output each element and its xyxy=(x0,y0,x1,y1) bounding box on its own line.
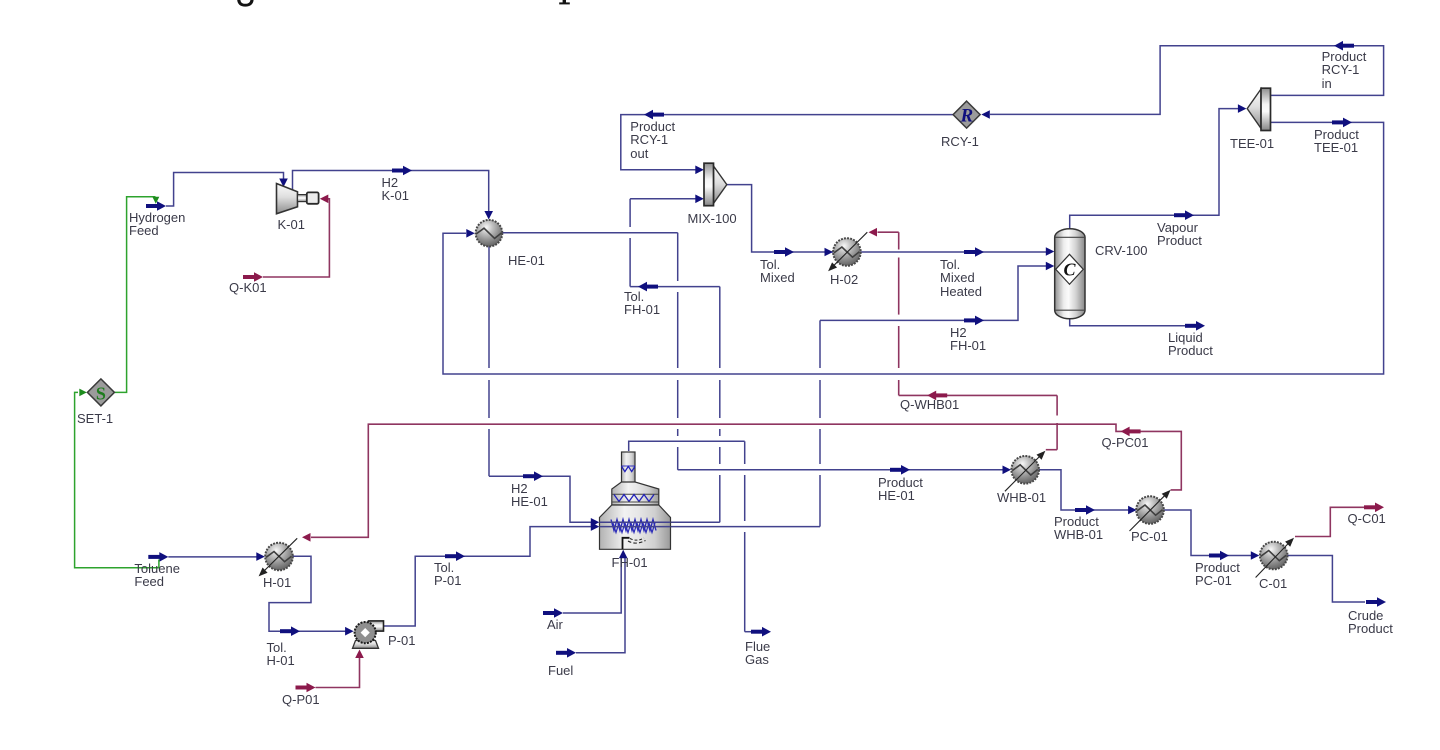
label K-01 xyxy=(278,218,305,231)
wire stream Q-P01 (energy) xyxy=(296,686,308,690)
wire stream H2 K-01 xyxy=(293,171,489,212)
label Fuel xyxy=(548,664,573,677)
wire stream Air xyxy=(543,611,555,615)
fired heater FH-01 xyxy=(622,452,636,483)
mixer MIX-100 xyxy=(714,166,727,203)
label MIX-100 xyxy=(688,212,737,225)
wire stream H2 HE-01 xyxy=(488,246,490,368)
label Q-PC01 xyxy=(1102,436,1149,449)
cooler PC-01 xyxy=(1136,496,1164,524)
wire stream Tol. H-01 xyxy=(269,556,346,631)
label H2 HE-01 xyxy=(511,482,548,509)
wire stream Crude Product xyxy=(1287,556,1365,603)
label H-01 xyxy=(263,576,291,589)
recycle RCY-1 xyxy=(953,101,980,128)
label Product RCY-1 out xyxy=(630,120,675,160)
svg-text:C: C xyxy=(1063,260,1076,280)
label H2 K-01 xyxy=(382,176,409,203)
reactor CRV-100 xyxy=(1055,229,1085,319)
wire stream Flue Gas xyxy=(629,441,745,451)
set SET-1 xyxy=(87,379,114,406)
wire stream H2 FH-01 xyxy=(671,526,821,528)
label SET-1 xyxy=(77,412,113,425)
svg-text:S: S xyxy=(96,383,106,403)
label Product RCY-1 in xyxy=(1322,50,1367,90)
label Q-C01 xyxy=(1348,512,1386,525)
label Tol. Mixed Heated xyxy=(940,258,982,298)
wire SET-1 output (to Hydrogen Feed) xyxy=(114,197,155,393)
label Tol. Mixed xyxy=(760,258,795,285)
compressor K-01 xyxy=(277,184,298,214)
label Tol. H-01 xyxy=(267,641,295,668)
wire stream Product TEE-01 xyxy=(443,122,1384,374)
label Vapour Product xyxy=(1157,221,1202,248)
wire stream Fuel xyxy=(556,651,568,655)
label Product PC-01 xyxy=(1195,561,1240,588)
label HE-01 xyxy=(508,254,545,267)
label H-02 xyxy=(830,273,858,286)
heater H-02 xyxy=(833,238,861,266)
label Toluene Feed xyxy=(134,562,180,589)
wire stream Product PC-01 xyxy=(1163,510,1251,556)
wire stream Product RCY-1 in xyxy=(990,46,1384,115)
label Air xyxy=(547,618,563,631)
wire stream Vapour Product xyxy=(1070,109,1238,229)
label H2 FH-01 xyxy=(950,326,986,353)
label P-01 xyxy=(388,634,415,647)
wire stream Product HE-01 xyxy=(502,232,678,234)
wire stream Hydrogen Feed xyxy=(146,204,158,208)
wire stream Product RCY-1 out xyxy=(621,115,953,170)
cooler WHB-01 xyxy=(1011,456,1039,484)
label PC-01 xyxy=(1131,530,1168,543)
label Product HE-01 xyxy=(878,476,923,503)
label Product TEE-01 xyxy=(1314,128,1359,155)
label RCY-1 xyxy=(941,135,979,148)
wire stream Tol. Mixed xyxy=(727,185,1047,252)
wire stream Q-C01 (energy) xyxy=(1295,507,1364,536)
svg-text:R: R xyxy=(960,106,974,127)
wire stream Liquid Product xyxy=(1070,319,1186,326)
label WHB-01 xyxy=(997,491,1046,504)
cooler C-01 xyxy=(1260,542,1288,570)
label TEE-01 xyxy=(1230,137,1274,150)
label Flue Gas xyxy=(745,640,770,667)
heat exchanger HE-01 xyxy=(476,220,503,247)
caption descender p xyxy=(563,0,566,3)
label Q-K01 xyxy=(229,281,267,294)
wire stream Toluene Feed xyxy=(148,555,160,559)
wire SET-1 input (from Toluene Feed) xyxy=(75,392,159,567)
wire stream Tol. FH-01 xyxy=(671,521,720,523)
wire stream Q-PC01 (energy) xyxy=(311,424,1181,537)
wire stream Tol. P-01 xyxy=(384,527,592,626)
wire stream Product WHB-01 xyxy=(1039,470,1130,510)
tee TEE-01 xyxy=(1247,89,1261,128)
pump P-01 xyxy=(353,641,379,649)
heater H-01 xyxy=(265,543,293,571)
label Q-P01 xyxy=(282,693,320,706)
label Crude Product xyxy=(1348,609,1393,636)
caption descender g xyxy=(237,0,253,7)
label Tol. P-01 xyxy=(434,561,461,588)
label Liquid Product xyxy=(1168,331,1213,358)
label C-01 xyxy=(1259,577,1287,590)
wire stream Q-K01 (energy) xyxy=(243,275,255,279)
wire stream Q-WHB01 (energy) xyxy=(1046,449,1057,451)
label Hydrogen Feed xyxy=(129,211,185,238)
label Tol. FH-01 xyxy=(624,290,660,317)
label CRV-100 xyxy=(1095,244,1148,257)
label Product WHB-01 xyxy=(1054,515,1103,542)
label Q-WHB01 xyxy=(900,398,959,411)
wire stream Tol. Mixed Heated xyxy=(964,250,976,254)
label FH-01 xyxy=(612,556,648,569)
